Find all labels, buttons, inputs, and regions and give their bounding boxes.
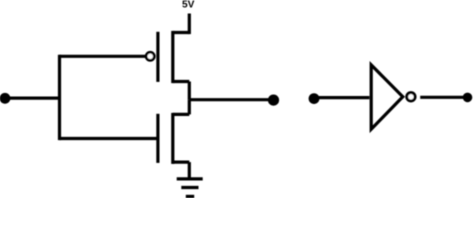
transistor M2 NMOS channel bar — [171, 113, 174, 164]
transistor M2 NMOS drain lead — [173, 113, 190, 116]
svg-text:5V: 5V — [182, 0, 195, 11]
transistor M2 NMOS source lead — [173, 161, 190, 164]
ground bar 3 — [186, 195, 194, 198]
transistor M1 PMOS source lead — [173, 31, 190, 34]
node A stage-1 output terminal dot — [268, 95, 279, 106]
wire output node to terminal — [189, 98, 269, 101]
wire inverter input — [314, 96, 369, 99]
transistor M2 NMOS gate bar — [156, 114, 159, 163]
node B inverter input terminal dot — [309, 93, 320, 104]
node IN (input terminal dot) — [0, 93, 10, 104]
wire vertical branch — [58, 55, 61, 140]
wire NMOS gate — [60, 137, 158, 140]
PMOS gate bubble — [146, 52, 154, 60]
wire PMOS drain down to output node — [188, 82, 191, 100]
wire inverter output — [420, 96, 464, 99]
wire input to branch point — [4, 96, 60, 99]
inverter U1 output bubble — [407, 93, 415, 101]
transistor M1 PMOS gate bar — [156, 32, 159, 82]
wire top branch to PMOS gate bubble — [60, 55, 146, 58]
op-amp style inverter U1 triangle — [371, 65, 403, 129]
wire NMOS drain up to output node — [188, 100, 191, 115]
ground bar 2 — [181, 186, 198, 189]
wire NMOS source down to ground — [188, 162, 191, 179]
node OUT output terminal dot — [463, 93, 473, 103]
transistor M1 PMOS channel bar — [171, 31, 174, 83]
wire to 5V supply — [188, 14, 191, 35]
ground bar 1 — [177, 177, 203, 180]
transistor M1 PMOS drain lead — [173, 80, 190, 83]
